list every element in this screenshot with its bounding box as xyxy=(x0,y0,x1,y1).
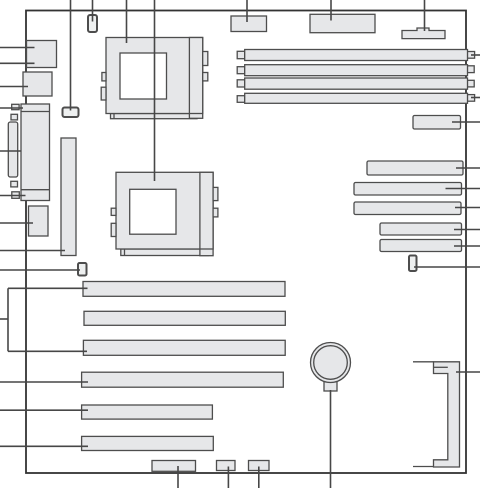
serial/parallel D-sub stack: main body xyxy=(21,104,50,201)
CPU1 3D edge xyxy=(188,38,190,114)
PCI slots xyxy=(82,282,286,451)
PCI slot 6 xyxy=(82,436,214,450)
DIMM3 right tab xyxy=(467,80,474,87)
CPU2 foot bar xyxy=(121,249,209,256)
header T1 xyxy=(231,16,267,32)
D-sub top divider xyxy=(21,111,50,113)
CPU2 right tab upper xyxy=(213,187,218,200)
DIMM1 left tab xyxy=(237,51,245,58)
CPU2 left tab lower xyxy=(111,223,116,236)
CPU1 right column xyxy=(189,38,202,119)
CPU1 body xyxy=(106,38,203,114)
D-sub top tab xyxy=(12,104,19,109)
bottom edge headers xyxy=(152,461,269,472)
CPU1 foot bar xyxy=(111,114,198,119)
top callouts xyxy=(70,0,72,111)
CPU1 right tab upper xyxy=(203,52,208,66)
connector K2 xyxy=(88,15,97,32)
PCI slot 3 xyxy=(83,340,285,355)
USB connector block B xyxy=(23,72,52,96)
D-sub shell xyxy=(8,122,17,177)
fork to PCI slots 1 and 3 xyxy=(0,318,8,320)
top edge headers xyxy=(231,14,445,38)
CPU socket 1 xyxy=(101,38,208,119)
PCI slot 5 xyxy=(82,405,213,419)
PCI slot 4 xyxy=(82,372,284,387)
D-sub bottom tab xyxy=(12,192,19,199)
CPU1 left tab upper xyxy=(102,73,106,81)
DIMM2 right tab xyxy=(467,66,474,73)
power connector with notch xyxy=(402,28,445,39)
DIMM3 body xyxy=(245,78,468,89)
DIMM2 body xyxy=(245,65,468,76)
battery xyxy=(311,343,351,392)
CPU1 inner window xyxy=(120,53,167,99)
audio connector xyxy=(29,206,49,236)
bottom callouts xyxy=(177,466,179,488)
DIMM1 right tab xyxy=(467,52,474,59)
box R3 xyxy=(354,183,462,196)
PCI slot 2 xyxy=(84,311,285,325)
bottom header B3 xyxy=(249,461,270,471)
CPU1 right tab lower xyxy=(203,73,208,81)
DIMM4 left tab xyxy=(237,96,245,103)
connector K1 xyxy=(63,108,79,118)
bottom header B2 xyxy=(217,461,236,471)
box R5 xyxy=(380,223,462,235)
PCI slot 1 xyxy=(83,282,285,297)
right callouts xyxy=(471,54,480,56)
connector S1 xyxy=(409,256,417,272)
bottom header B1 xyxy=(152,461,196,472)
box R4 xyxy=(354,202,461,215)
DIMM1 body xyxy=(245,50,468,61)
DIMM4 right tab xyxy=(467,95,474,102)
header T2 xyxy=(310,14,375,32)
connector K3 xyxy=(78,263,87,276)
small keyed connectors (thick stroke) xyxy=(63,15,417,276)
D-sub small square bottom xyxy=(11,181,18,187)
box R2 xyxy=(367,161,463,175)
left callouts xyxy=(0,47,35,49)
D-sub bottom divider xyxy=(21,189,50,191)
DIMM4 body xyxy=(245,93,468,103)
heatsink retention bracket xyxy=(413,362,460,467)
right column headers xyxy=(354,116,463,252)
CPU2 body xyxy=(116,172,213,249)
box R1 xyxy=(413,116,461,130)
CPU2 left tab upper xyxy=(111,208,116,215)
CPU socket 2 xyxy=(111,172,218,255)
CPU1 left tab lower xyxy=(101,87,106,100)
PS2 connector block A xyxy=(27,41,57,68)
DIMM3 left tab xyxy=(237,80,245,87)
box R6 xyxy=(380,240,462,252)
CPU2 3D edge xyxy=(199,172,201,249)
CPU2 right column xyxy=(200,172,213,255)
CPU2 inner window xyxy=(130,189,176,234)
vertical riser slot xyxy=(61,138,76,256)
CPU2 right tab lower xyxy=(213,208,218,217)
DIMM slots xyxy=(237,50,474,104)
D-sub small square top xyxy=(11,114,18,120)
DIMM2 left tab xyxy=(237,67,245,74)
